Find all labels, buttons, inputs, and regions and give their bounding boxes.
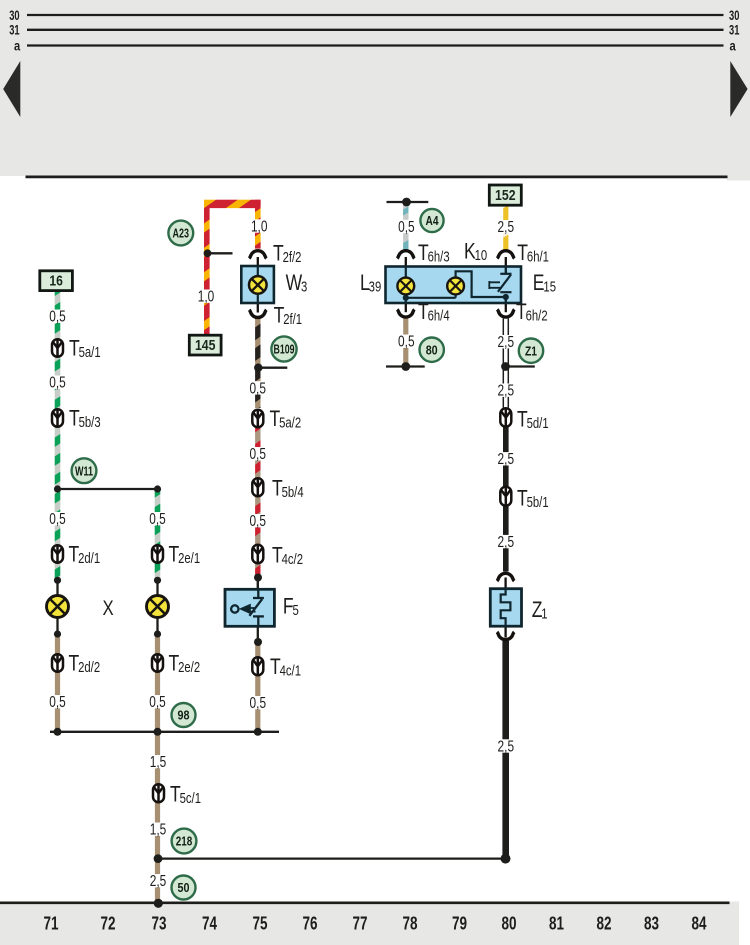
junction B109	[254, 364, 262, 372]
svg-text:72: 72	[101, 913, 116, 934]
svg-text:78: 78	[403, 913, 418, 934]
connector T5d/1	[500, 408, 511, 427]
connector T5b/4	[252, 478, 263, 496]
label T2e/2	[169, 652, 201, 677]
right page arrow	[730, 61, 747, 117]
connector T5a/1	[52, 339, 63, 357]
crossbar above A4 wire	[387, 201, 429, 203]
value 0,5 T2d/1 wire	[49, 511, 67, 528]
ref circle 50	[172, 876, 196, 900]
ref circle 98	[172, 703, 196, 727]
svg-text:98: 98	[178, 708, 190, 723]
bus labels right	[729, 8, 740, 54]
label K10	[464, 240, 487, 265]
plug arc above Z1	[497, 573, 514, 581]
svg-text:1,0: 1,0	[251, 218, 268, 235]
connector T5c/1	[153, 784, 164, 802]
switch E15 with lamps L39 (blue box)	[386, 267, 522, 304]
svg-text:74: 74	[202, 913, 218, 934]
ref circle Z1 pointer	[519, 339, 543, 363]
label T6h/2	[516, 300, 548, 325]
connector T2d/2	[52, 654, 63, 672]
svg-text:a: a	[730, 38, 737, 53]
connector T2d/1	[52, 545, 63, 563]
ref circle A23	[168, 221, 193, 246]
pin Z1 top	[504, 578, 506, 590]
svg-text:71: 71	[44, 913, 59, 934]
junction top of A4 wire	[402, 198, 411, 207]
svg-text:0,5: 0,5	[249, 446, 266, 463]
label T2d/1	[69, 543, 101, 568]
wire white T6h/2 down to T5d/1	[503, 319, 508, 408]
value 2,5 Z1 down-wire	[497, 738, 515, 755]
value 2,5 wire to track 73	[149, 873, 167, 890]
plug arc below Z1	[497, 632, 514, 640]
node at track 73	[154, 899, 163, 908]
ref circle 218	[172, 829, 197, 854]
label T4c/2	[272, 544, 303, 569]
plug arc T6h/1	[497, 251, 514, 259]
svg-text:W11: W11	[75, 463, 93, 478]
connector T5b/3	[52, 409, 63, 427]
plug arc T2f/1	[249, 310, 266, 318]
svg-text:83: 83	[644, 913, 659, 934]
lamp X left	[47, 596, 69, 618]
value 0,5 T5a/2-T5b/4	[249, 446, 267, 463]
ref circle B109	[271, 336, 296, 361]
svg-text:0,5: 0,5	[249, 513, 266, 530]
junction W11 right	[154, 485, 161, 492]
svg-text:1,0: 1,0	[198, 289, 215, 306]
label X (lamp pair)	[103, 597, 114, 620]
junction rail 98 col2	[154, 728, 162, 736]
connector T5b/1	[500, 487, 511, 506]
node above lamp X left	[54, 577, 61, 584]
label T6h/3	[418, 241, 450, 266]
connector T2e/2	[152, 654, 163, 672]
left page arrow	[3, 61, 20, 117]
svg-text:0,5: 0,5	[49, 375, 66, 392]
wire br column 2 (lamp to bottom band)	[155, 634, 160, 902]
crossbar below 80 wire	[386, 365, 425, 367]
label T5b/3	[69, 406, 101, 431]
label T5a/1	[69, 336, 101, 361]
svg-text:2,5: 2,5	[498, 334, 515, 351]
svg-text:0,5: 0,5	[49, 694, 66, 711]
svg-text:82: 82	[597, 913, 612, 934]
svg-text:0,5: 0,5	[149, 511, 166, 528]
value 0,5 T6h/4 wire	[397, 334, 415, 351]
pin T6h/4	[405, 303, 407, 312]
wire gn/ws column 2 (junction down to lamp 2)	[155, 489, 161, 580]
svg-text:1,5: 1,5	[150, 754, 167, 771]
wire br below F5	[255, 642, 260, 731]
wire br column 1 (lamp to bottom rail)	[55, 634, 60, 731]
node above F5	[254, 574, 262, 582]
junction 218	[154, 854, 163, 863]
node below lamp X right	[154, 630, 161, 637]
junction on red wire (A23)	[204, 249, 212, 257]
svg-text:0,5: 0,5	[149, 694, 166, 711]
bottom rail 98	[50, 731, 279, 733]
wire black thick T5d/1 to Z1	[503, 428, 509, 572]
label E15	[533, 271, 556, 296]
junction rail 98 col3	[254, 728, 262, 736]
label T5b/1	[517, 486, 549, 511]
value 0,5 col 16-wire upper	[49, 309, 67, 326]
svg-text:152: 152	[495, 188, 516, 204]
label T4c/1	[270, 655, 301, 680]
svg-text:0,5: 0,5	[249, 380, 266, 397]
label T6h/4	[418, 300, 450, 325]
plug arc T6h/2	[497, 309, 514, 317]
svg-text:2,5: 2,5	[498, 534, 515, 551]
svg-text:77: 77	[353, 913, 368, 934]
label T2f/2	[273, 242, 301, 267]
W11 junction line col1-col2	[58, 488, 158, 490]
svg-text:30: 30	[729, 8, 739, 23]
ref circle W11	[72, 458, 97, 483]
pin T6h/3	[405, 257, 407, 267]
lamp X right	[147, 596, 169, 618]
value 2,5 T5b/1-Z1	[497, 534, 515, 551]
svg-text:X: X	[103, 597, 114, 620]
bus line a	[27, 44, 724, 46]
value 0,5 A4 wire	[397, 219, 415, 236]
value 0,5 below B109	[249, 380, 267, 397]
svg-text:84: 84	[692, 913, 708, 934]
switch F5 (blue box)	[225, 589, 274, 626]
node below F5	[254, 638, 262, 646]
svg-text:Z1: Z1	[525, 343, 537, 358]
svg-text:80: 80	[426, 342, 438, 357]
plug arc T6h/3	[397, 251, 414, 259]
svg-text:0,5: 0,5	[49, 309, 66, 326]
value 0,5 T5b/4-T4c/2	[249, 513, 267, 530]
lamp unit W3 (cigarette lighter light)	[241, 266, 274, 303]
label Z1	[532, 598, 548, 623]
label T5c/1	[170, 783, 201, 808]
bus line 30	[27, 14, 724, 16]
wire black thick Z1 to junction	[502, 641, 509, 859]
junction below T6h/4 (80)	[401, 362, 410, 371]
connector T5a/2	[252, 410, 263, 428]
svg-text:1,5: 1,5	[150, 822, 167, 839]
svg-text:2,5: 2,5	[150, 873, 167, 890]
pin T2f/1	[257, 303, 259, 313]
long rail 218 junction to Z1 wire	[158, 857, 506, 859]
junction Z1 wire at rail	[501, 854, 511, 864]
label T2f/1	[274, 304, 302, 329]
label T5b/4	[272, 477, 304, 502]
stub at Z1 junction	[506, 365, 535, 367]
terminal box 152	[489, 185, 521, 205]
pin T2f/2	[257, 257, 259, 267]
junction W11 left	[54, 485, 61, 492]
heater element Z1 (blue box)	[490, 589, 521, 627]
svg-text:218: 218	[176, 834, 193, 849]
value 1,5 above T5c/1	[149, 754, 167, 771]
junction below T6h/2 (Z1)	[501, 362, 510, 371]
wire gn/ws column 1 (16 box down to lamp)	[55, 290, 61, 580]
svg-text:2,5: 2,5	[498, 451, 515, 468]
link F5 to node below	[257, 626, 259, 642]
svg-text:31: 31	[9, 23, 20, 38]
node below lamp X left	[54, 630, 61, 637]
value 2,5 above T5d/1	[497, 383, 515, 400]
label T2d/2	[69, 652, 101, 677]
connector T4c/1	[252, 657, 263, 675]
svg-text:30: 30	[9, 8, 19, 23]
label T5d/1	[517, 407, 549, 432]
value 0,5 T2e/1 wire	[149, 511, 167, 528]
svg-text:0,5: 0,5	[398, 219, 415, 236]
value 2,5 T6h/2 wire	[497, 334, 515, 351]
value 2,5 T5d/1-T5b/1	[497, 451, 515, 468]
value 1,5 below T5c/1	[149, 822, 167, 839]
plug arc T6h/4	[397, 309, 414, 317]
label F5	[283, 595, 299, 620]
svg-text:76: 76	[303, 913, 318, 934]
svg-text:31: 31	[729, 23, 740, 38]
label L39	[360, 271, 381, 296]
value 0,5 col 16-wire mid	[49, 375, 67, 392]
pin T6h/1	[505, 257, 507, 267]
junction stub at A23 wire	[208, 252, 233, 254]
pin T6h/2	[505, 303, 507, 312]
bus line 31	[27, 29, 724, 31]
node above lamp X right	[154, 577, 161, 584]
label T2e/1	[169, 543, 201, 568]
svg-text:B109: B109	[274, 342, 295, 357]
track numbers 71-84	[44, 913, 708, 934]
svg-text:0,5: 0,5	[398, 334, 415, 351]
junction rail 98 col1	[54, 728, 62, 736]
svg-text:0,5: 0,5	[49, 511, 66, 528]
label W3	[286, 271, 308, 296]
value 2,5 152 wire	[497, 219, 515, 236]
svg-text:2,5: 2,5	[498, 738, 515, 755]
svg-text:145: 145	[195, 338, 216, 354]
bottom gray band	[0, 902, 739, 945]
value 1,0 right red wire	[250, 218, 268, 235]
value 0,5 T4c/1 wire	[249, 695, 267, 712]
pin Z1 bottom	[504, 627, 506, 638]
terminal box 145	[189, 335, 221, 355]
wire rt/br T5a/2 to F5	[255, 428, 260, 578]
terminal box 16	[40, 271, 73, 291]
wire black stub into F5	[257, 578, 259, 591]
bus labels left	[9, 8, 20, 54]
svg-text:2,5: 2,5	[498, 383, 515, 400]
svg-text:A4: A4	[426, 213, 440, 228]
svg-text:0,5: 0,5	[250, 695, 267, 712]
ref circle 80	[420, 338, 444, 362]
wire sw/br below W3	[255, 319, 260, 409]
label T5a/2	[270, 407, 302, 432]
connector T4c/2	[252, 545, 263, 564]
svg-text:2,5: 2,5	[498, 219, 515, 236]
svg-text:A23: A23	[173, 226, 190, 241]
wire ro/ge from 145 up over to T2f/2	[207, 200, 258, 335]
svg-text:75: 75	[253, 913, 268, 934]
ref circle A4	[420, 209, 443, 232]
connector T2e/1	[152, 545, 163, 563]
wire ge 152 down to T6h/1	[503, 205, 508, 250]
value 0,5 T2d/2 wire	[49, 694, 67, 711]
svg-text:a: a	[14, 38, 21, 53]
value 1,0 left red wire	[197, 289, 215, 306]
svg-text:50: 50	[178, 880, 190, 895]
svg-text:80: 80	[502, 913, 517, 934]
top gray band	[0, 0, 750, 176]
svg-text:16: 16	[49, 274, 63, 290]
plug arc T2f/2	[249, 251, 266, 259]
wire br below T6h/4	[403, 318, 408, 365]
wire gr/bl A4 column	[403, 203, 408, 250]
wire gauge labels	[49, 218, 515, 890]
lamp X left stems	[56, 580, 58, 634]
value 0,5 T2e/2 wire	[149, 694, 167, 711]
svg-text:81: 81	[549, 913, 564, 934]
label T6h/1	[517, 241, 549, 266]
svg-text:79: 79	[452, 913, 467, 934]
svg-text:73: 73	[152, 913, 167, 934]
stub at B109 junction	[258, 367, 287, 369]
